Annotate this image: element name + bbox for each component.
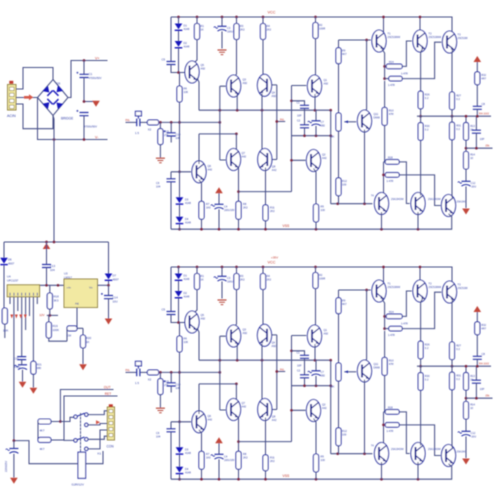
svg-text:C2: C2 [297,120,301,123]
wire: OUT feed 1 [60,390,113,422]
svg-text:V+: V+ [95,56,100,60]
svg-text:680: 680 [37,366,42,370]
capacitor C2 4700u/50V [76,110,97,140]
connector J2 CON speaker [107,404,115,448]
svg-text:4007: 4007 [113,277,120,281]
svg-text:1-47R: 1-47R [388,84,395,87]
svg-text:VSS: VSS [283,224,291,228]
capacitor C15 + ground under pin4 [14,357,28,388]
wire: Q6 collector up + lower mid wire [199,133,238,164]
IC U3 LM317 (regulator) [64,272,98,308]
svg-text:10P: 10P [480,137,485,141]
transistor T5 2SA1943 [391,193,425,215]
svg-text:A92: A92 [324,82,329,86]
svg-text:ACIN: ACIN [7,114,16,118]
wires: contacts to connector [88,411,107,449]
capacitor C16 2200/25V [4,441,18,478]
svg-text:-10U: -10U [471,185,477,189]
diode D2 4148 [175,31,190,74]
transistor Q2 (VAS lower) [306,150,327,172]
ground (red arrow) under C16 [10,478,18,484]
svg-text:C4: C4 [224,205,228,209]
svg-text:D4: D4 [185,217,189,221]
capacitor C4 100U/16V with flag [211,187,235,229]
svg-text:R28: R28 [388,156,393,159]
wire: regulator top rail [4,241,109,244]
svg-text:3K3: 3K3 [54,298,59,302]
Zobel branch: flag + R32 + C8 [473,56,487,118]
wire: connector to bridge AC terminals [16,68,53,129]
connector J1 ACIN [7,81,16,118]
svg-text:10K: 10K [3,329,8,333]
svg-text:A42: A42 [208,168,213,172]
svg-text:G2R/12V: G2R/12V [72,483,84,487]
transistor Q4 (mirrored) [257,74,276,98]
svg-text:2SA1943/M: 2SA1943/M [428,198,441,201]
svg-text:2SA1943: 2SA1943 [457,201,468,204]
wire: U3 output [98,284,109,286]
svg-text:2K2: 2K2 [270,209,275,213]
pin-1 arrow (red) at connector [96,420,100,424]
svg-text:X2: X2 [148,128,152,132]
svg-text:2K2: 2K2 [240,28,245,32]
svg-text:UPC1237: UPC1237 [7,278,19,282]
resistor R2 100R [313,17,325,78]
wire: bridge bottom to regulator rail [53,116,54,243]
svg-text:15k: 15k [485,143,490,147]
svg-text:10P: 10P [297,115,302,118]
diode D1 4148 [175,17,190,31]
svg-text:Vo: Vo [89,286,93,290]
wire: lower emitter bus [382,162,385,195]
wire: +12V line [47,314,58,317]
svg-text:V-: V- [95,135,99,139]
svg-text:C1: C1 [89,72,93,76]
resistor R4 2K2 [260,17,271,77]
trimpot RV1 3K (bias) [331,113,356,139]
svg-text:2SA1943/M: 2SA1943/M [391,198,404,201]
transistor Q5 [185,61,206,83]
svg-text:0.2: 0.2 [456,97,460,101]
svg-text:R26: R26 [425,93,430,97]
resistor R26 0.2 (T2 emitter) [418,48,430,118]
wire: upper mid bus [199,109,332,112]
wire: Q1 emitter down [314,94,316,110]
svg-text:R11: R11 [270,206,275,210]
svg-text:A92: A92 [243,81,248,85]
svg-text:T1: T1 [388,32,392,36]
svg-text:C12: C12 [471,181,476,185]
svg-text:CON: CON [107,445,115,449]
svg-text:4148: 4148 [185,201,191,205]
svg-text:R31: R31 [456,124,461,128]
svg-text:Q6: Q6 [208,164,212,168]
svg-text:A42: A42 [322,156,327,160]
svg-text:100R: 100R [319,27,325,31]
svg-text:Q7: Q7 [242,151,246,155]
capacitor C13 104 [42,242,56,285]
svg-text:D2: D2 [184,41,188,45]
resistor R21 + ground under pin7 [30,361,43,394]
ground (red arrow) under C12 [462,209,470,215]
transistor T6 2SA1943 [428,195,467,217]
svg-text:BRIDGE: BRIDGE [61,117,73,121]
svg-text:R32: R32 [481,73,486,77]
svg-text:D3: D3 [185,198,189,202]
capacitor C10 [164,122,181,142]
resistor R19 100K [46,315,67,341]
svg-text:10P: 10P [176,136,181,140]
svg-text:C15: C15 [14,357,19,361]
svg-text:R24: R24 [389,61,394,64]
svg-text:A42: A42 [272,168,277,172]
svg-text:U3: U3 [64,272,68,276]
wires: lower output collectors to VSS [382,212,452,229]
svg-text:1K: 1K [201,28,204,32]
svg-text:1-47R: 1-47R [387,180,394,183]
diode D4 4148 [176,205,192,231]
wire: U3 input line [40,284,64,287]
resistor R30 0.2 (T5 top) [418,116,430,195]
resistor R9 4K7 [336,40,347,113]
svg-text:0.2: 0.2 [425,128,429,132]
ground (red arrow) mid supply [83,100,100,107]
transistor Q11 D669 (bias) [357,110,380,132]
transistor Q7 [226,149,246,171]
svg-text:RA 10/2: RA 10/2 [479,112,489,116]
diode D7 4007 [105,242,119,287]
ground (red arrow) under C14 [105,319,113,325]
input coupling capacitor C9 [126,111,142,135]
capacitor C5 104 (left column) [162,17,185,73]
resistor R20 1K [77,328,92,370]
svg-text:Q8: Q8 [272,165,276,169]
svg-text:R2: R2 [319,23,323,27]
svg-text:0.2: 0.2 [425,96,429,100]
trimpot RV2 (CW) [67,308,78,342]
svg-text:R6: R6 [184,87,188,91]
resistor R11 2K2 (under Q8) [263,168,275,230]
diode D6 4007 [0,242,14,308]
wire: V- rail [38,98,108,141]
resistor R10 47R (mid) [382,81,394,162]
svg-text:A92: A92 [201,67,206,71]
svg-text:A92: A92 [272,94,277,98]
svg-text:4K7: 4K7 [40,429,45,433]
svg-text:VCC: VCC [268,11,276,15]
wire: relay coil return [13,439,103,463]
svg-text:4700U/50V: 4700U/50V [89,76,102,80]
wire: x330 column + lower drive line [331,110,373,205]
transistor T2 2SC5198 [413,30,441,52]
svg-text:CW: CW [67,334,72,338]
svg-text:104: 104 [50,268,55,272]
transistor T4 2SA1943 (lower driver) [371,193,389,215]
svg-text:C8: C8 [482,102,486,106]
resistor R31 0.2 (T6 top) [450,116,462,197]
capacitor C9 (across R13) [472,116,485,149]
ground (red) under C3 [218,50,227,55]
svg-text:2SC5198/M: 2SC5198/M [388,36,401,39]
svg-text:4148: 4148 [184,45,190,49]
svg-text:T2: T2 [429,32,433,36]
svg-text:4K7: 4K7 [342,52,347,56]
svg-text:Q11: Q11 [374,112,379,116]
svg-text:D5: D5 [57,82,61,86]
svg-text:A42: A42 [242,155,247,159]
svg-text:+In: +In [67,286,72,290]
capacitor C12 [458,181,476,208]
svg-text:Adj: Adj [75,302,79,306]
transistor Q6 [192,161,213,183]
resistor R23 4K7 [38,437,64,450]
bridge rectifier D5 [38,80,74,121]
svg-text:INL: INL [125,118,130,122]
resistor R17 10K [2,308,8,338]
svg-text:INL: INL [280,118,285,122]
svg-text:C7: C7 [321,120,325,124]
power flow arrow (red) [24,94,33,100]
wire: Q5 collector down [197,78,199,110]
svg-text:2200/25V: 2200/25V [4,461,8,472]
svg-text:C10: C10 [176,133,181,137]
wire: Q4 emitter down to Q8 [262,94,264,152]
svg-text:10K: 10K [184,90,189,94]
wire: T1 emitter bus [382,49,386,80]
svg-text:1-47R: 1-47R [401,73,408,76]
wire: Q11 collector / T1 base [339,39,371,113]
svg-text:U4: U4 [7,275,11,279]
svg-text:Q1: Q1 [324,78,328,82]
wire: input line [159,121,221,124]
svg-text:R12: R12 [342,179,347,183]
resistor R6 10K [177,73,188,174]
transistor T1 2SC5198 (driver) [372,30,400,52]
svg-text:10U: 10U [113,299,118,303]
svg-text:OUT: OUT [104,386,111,390]
ground (red) under R15 [156,158,165,163]
svg-text:R8: R8 [243,202,247,206]
resistor R25 1-47R (emitter link b) [385,42,442,87]
wire: output node [417,115,491,117]
capacitor C6 104 (lower left column) [156,172,191,229]
svg-text:470U: 470U [14,365,20,369]
svg-text:1.5: 1.5 [135,131,139,135]
svg-text:R3: R3 [240,24,244,28]
svg-text:2SC5198/M: 2SC5198/M [429,36,442,39]
transistor Q8 (mirrored) [258,149,277,173]
resistor R14 [464,152,476,182]
svg-text:3K: 3K [331,135,335,139]
wire: feedback tap [466,147,493,149]
resistor R7 [199,180,211,229]
svg-text:K1: K1 [98,452,102,456]
svg-text:+35V: +35V [271,256,278,260]
capacitor C3 100U/50V [214,17,238,49]
svg-text:0.2: 0.2 [456,127,460,131]
svg-text:100: 100 [342,183,347,187]
resistor R29 1-47R (emitter link d) [385,173,440,206]
svg-text:1K: 1K [86,340,90,344]
svg-text:C6: C6 [156,181,160,185]
svg-text:C1: C1 [297,102,301,105]
resistor R1 1K [193,17,205,64]
transistor T3 2SC5198 [442,31,468,53]
resistor R8 2K2 (under Q7) [236,167,248,230]
svg-text:R4: R4 [267,24,271,28]
diode D3 4148 [176,172,192,205]
wire: VAS base column [239,86,307,192]
svg-text:4148: 4148 [184,27,190,31]
svg-text:R13: R13 [470,124,475,128]
svg-text:4700U/50V: 4700U/50V [84,125,97,129]
capacitors C1/C2 compensation stack [292,101,310,136]
wire: lower mid bus [292,134,333,137]
svg-text:C5: C5 [162,58,166,62]
pin indicator marks (red) [10,315,27,319]
relay contacts K1 [60,413,88,451]
svg-text:C3: C3 [227,26,231,30]
svg-text:100U/16V: 100U/16V [224,209,235,212]
resistor R12 [336,131,347,204]
svg-text:R14: R14 [470,153,475,157]
wire: Q11 emitter down [364,130,366,204]
resistor R5 100R (under Q2) [313,169,325,230]
svg-text:4K7: 4K7 [40,447,45,451]
input series resistor R16 [141,120,159,132]
resistor R18 3K3 [47,285,59,315]
wire: Q3 emitter down [236,94,238,110]
svg-text:R9: R9 [342,49,346,53]
svg-text:R10: R10 [389,109,394,113]
svg-text:T3: T3 [458,33,462,37]
wire: OUT feed 2 [64,396,118,440]
svg-text:D669: D669 [374,116,381,120]
svg-text:10: 10 [470,156,473,160]
svg-text:1K0: 1K0 [206,206,211,210]
wire: V+ rail [68,59,108,97]
svg-text:2K2: 2K2 [267,28,272,32]
capacitor C7 682 [308,110,326,136]
transistor Q1 (VAS upper) [307,75,328,97]
svg-text:Q2: Q2 [322,153,326,157]
wire: input to Q3/Q7 bases [220,86,226,160]
svg-text:RET: RET [105,392,111,396]
svg-text:R5: R5 [321,205,325,209]
svg-text:100: 100 [321,208,326,212]
power flag (red arrow up) on rail [43,243,51,249]
resistor R22 4K7 [38,419,62,440]
svg-text:R7: R7 [206,202,210,206]
resistor R28 (emitter link c) [384,156,410,203]
svg-text:R21: R21 [37,363,42,367]
resistor R24 (emitter link a) [385,41,412,76]
svg-text:Q5: Q5 [201,63,205,67]
svg-text:Q4: Q4 [272,91,276,95]
svg-text:2K2: 2K2 [243,206,248,210]
svg-text:4148: 4148 [185,220,191,224]
wire: feedback node column [271,85,285,160]
svg-text:2SC5198: 2SC5198 [458,37,469,40]
U4 pin wires [10,297,37,441]
capacitor C1 4700u/50V [76,61,101,102]
svg-text:R27: R27 [456,94,461,98]
relay coil K1 G2R/12V [72,414,86,487]
resistor R13 (feedback) [464,115,476,152]
svg-text:4007: 4007 [8,261,15,265]
svg-text:104: 104 [156,185,161,189]
svg-text:T4: T4 [371,195,374,198]
svg-text:682: 682 [321,124,326,128]
svg-text:Q3: Q3 [243,78,247,82]
wire: VSS rail [171,216,452,231]
transistor Q3 [227,75,248,97]
resistor R15 27K [158,122,170,157]
resistor R3 2K2 [234,17,245,78]
svg-text:100K: 100K [53,328,60,332]
resistor R27 0.2 (T3 emitter) [450,50,462,118]
svg-text:4R7: 4R7 [481,76,486,80]
svg-text:R1: R1 [201,24,205,28]
wire: VCC rail [171,16,452,34]
relay actuation dashed line [80,413,82,450]
IC U4 UPC1237 (protection) [7,275,40,297]
capacitor C14 10U [101,285,118,318]
svg-text:R30: R30 [425,124,430,128]
svg-text:47R: 47R [389,112,394,116]
svg-text:D1: D1 [184,24,188,28]
svg-text:12V: 12V [39,313,44,317]
